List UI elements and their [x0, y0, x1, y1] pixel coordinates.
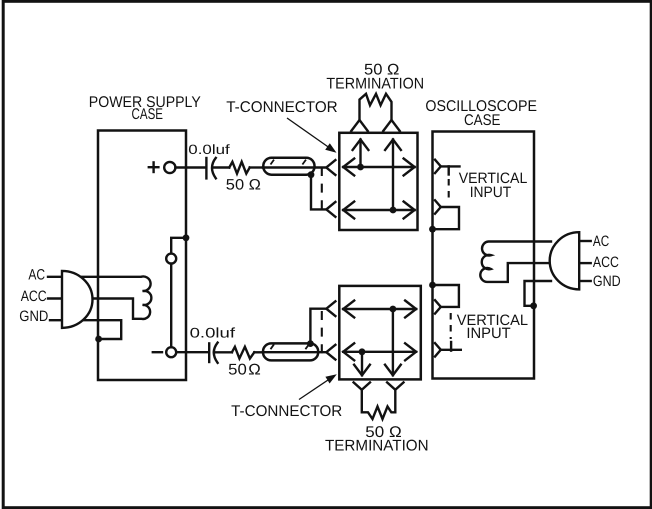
svg-text:0.0luf: 0.0luf — [188, 142, 230, 157]
ground binding post — [166, 254, 176, 264]
connector V shield (top T) — [326, 202, 335, 217]
connector V center (top T) — [326, 160, 335, 175]
svg-text:0.0luf: 0.0luf — [190, 325, 236, 341]
ground cord to case (power supply) — [62, 320, 121, 339]
junction dot top box lower — [390, 207, 397, 214]
bottom box: vertical arrow from lower path to termination — [354, 352, 370, 375]
coax cable W1 body — [263, 158, 314, 175]
top box: horizontal double arrow (lower shield path) — [343, 202, 414, 219]
line cord coil (oscilloscope) — [480, 242, 551, 282]
AC plug P1 — [62, 271, 93, 328]
shell dashed link (top T-connector) — [321, 167, 323, 209]
oscilloscope case box — [433, 132, 535, 379]
svg-text:ACC: ACC — [593, 254, 619, 271]
lead AC (right) — [579, 240, 591, 242]
braid mark W1 left — [271, 160, 275, 165]
termination connector V right (top) — [383, 120, 399, 131]
termination resistor (top) — [360, 94, 392, 120]
lead GND (right) — [579, 280, 591, 282]
wire C1 to resistor R1 — [212, 166, 229, 168]
termination connector V left (bottom) — [354, 382, 370, 389]
junction dot top box upper — [357, 164, 364, 171]
wire C2 to resistor R2 — [214, 351, 232, 353]
wire R1 to coax W1 — [250, 166, 263, 168]
plus terminal sign — [149, 162, 159, 172]
resistor R1 50 ohm — [229, 162, 249, 174]
termination resistor (bottom) — [362, 390, 396, 419]
wire case wall to ground post — [171, 238, 186, 253]
junction dot case to ground post wire — [183, 234, 190, 241]
coax cable W2 body — [263, 343, 318, 360]
center conductor through coax W2 — [263, 351, 327, 353]
shield wire W1 to lower connector — [311, 175, 326, 210]
svg-text:GND: GND — [19, 308, 48, 325]
svg-text:AC: AC — [28, 266, 45, 283]
braid mark W2 left — [271, 344, 275, 349]
svg-text:INPUT: INPUT — [466, 325, 510, 342]
minus binding post — [166, 347, 176, 357]
lower input center connector V — [435, 343, 441, 356]
top box: vertical arrow from lower path to termination — [385, 140, 401, 211]
svg-text:CASE: CASE — [132, 106, 164, 123]
wire R2 to coax W2 — [254, 351, 263, 353]
svg-text:ACC: ACC — [21, 288, 47, 305]
capacitor C2 — [209, 343, 217, 363]
upper input center connector V — [435, 160, 441, 173]
junction dot bottom box lower — [359, 348, 366, 355]
svg-text:TERMINATION: TERMINATION — [325, 438, 429, 455]
upper input shield connector V — [435, 200, 441, 213]
shell dashed link (bottom T-connector) — [321, 311, 323, 353]
upper input shell tick — [448, 166, 450, 174]
svg-text:GND: GND — [593, 273, 621, 290]
leader arrow to top T-connector — [287, 118, 337, 153]
label VERTICAL INPUT (upper) — [459, 170, 528, 201]
lower input shell dashed link — [450, 313, 452, 339]
label 50 ohm TERMINATION (top) — [326, 62, 424, 93]
lower input center stub — [440, 349, 460, 351]
svg-text:50 Ω: 50 Ω — [228, 362, 261, 379]
wire plus post to capacitor C1 — [175, 166, 205, 168]
minus terminal sign — [153, 351, 162, 353]
svg-text:AC: AC — [593, 233, 609, 250]
junction dot upper shield to case — [429, 226, 436, 233]
plus binding post — [164, 162, 175, 173]
capacitor C1 — [206, 158, 215, 179]
lead AC (left) — [48, 276, 62, 278]
leader arrow to bottom T-connector — [299, 374, 337, 399]
upper input shell dashed link — [448, 179, 450, 200]
shield wire W2 to upper connector — [310, 309, 326, 344]
upper input center stub — [441, 165, 460, 167]
ground cord to case (oscilloscope) — [525, 281, 552, 306]
T-connector box (bottom) — [339, 286, 421, 380]
lower input shield connector V — [435, 300, 441, 313]
connector V center (bottom T) — [326, 345, 335, 360]
junction dot ground to PSU case — [95, 336, 102, 343]
svg-text:INPUT: INPUT — [470, 184, 512, 201]
bottom box: vertical arrow from upper path to termination — [385, 309, 401, 375]
junction dot lower shield to case — [429, 282, 436, 289]
bottom box: horizontal double arrow (lower signal path) — [343, 343, 416, 360]
svg-text:50 Ω: 50 Ω — [226, 176, 261, 193]
label POWER SUPPLY CASE — [89, 94, 201, 123]
junction dot coax W1 shield — [308, 171, 315, 178]
top box: horizontal double arrow (upper signal path) — [343, 159, 414, 176]
braid mark W2 right — [305, 344, 309, 349]
lead ACC (left) — [48, 297, 62, 299]
T-connector box (top) — [339, 133, 417, 230]
termination connector V left (top) — [351, 120, 367, 131]
top box: vertical arrow from upper path to termination — [353, 140, 369, 168]
connector V shield (bottom T) — [326, 301, 335, 316]
label OSCILLOSCOPE CASE — [425, 98, 537, 129]
junction dot coax W2 shield — [307, 340, 314, 347]
resistor R2 50 ohm — [232, 347, 254, 359]
line cord coil (power supply) — [62, 276, 151, 319]
braid mark W1 right — [302, 160, 306, 165]
junction dot ground to scope case — [530, 302, 537, 309]
lower input shell tick — [450, 342, 452, 351]
upper input shield wire to case — [433, 207, 460, 229]
svg-text:T-CONNECTOR: T-CONNECTOR — [226, 99, 338, 116]
svg-text:TERMINATION: TERMINATION — [326, 76, 424, 93]
label VERTICAL INPUT (lower) — [457, 312, 528, 342]
bottom box: horizontal double arrow (upper shield path) — [343, 301, 416, 318]
power supply case box — [98, 131, 186, 381]
lead ACC (right) — [579, 262, 591, 264]
lower input shield wire to case — [433, 285, 459, 307]
junction dot bottom box upper — [390, 306, 397, 313]
svg-text:T-CONNECTOR: T-CONNECTOR — [231, 403, 342, 420]
shorting link ground post to minus post — [170, 264, 172, 348]
label 50 ohm TERMINATION (bottom) — [325, 424, 429, 454]
lead GND (left) — [50, 319, 62, 321]
center conductor through coax W1 — [263, 166, 326, 168]
wire minus post to capacitor C2 — [177, 351, 208, 353]
termination connector V right (bottom) — [387, 382, 403, 389]
svg-text:CASE: CASE — [464, 112, 501, 129]
AC plug P2 — [550, 232, 580, 289]
